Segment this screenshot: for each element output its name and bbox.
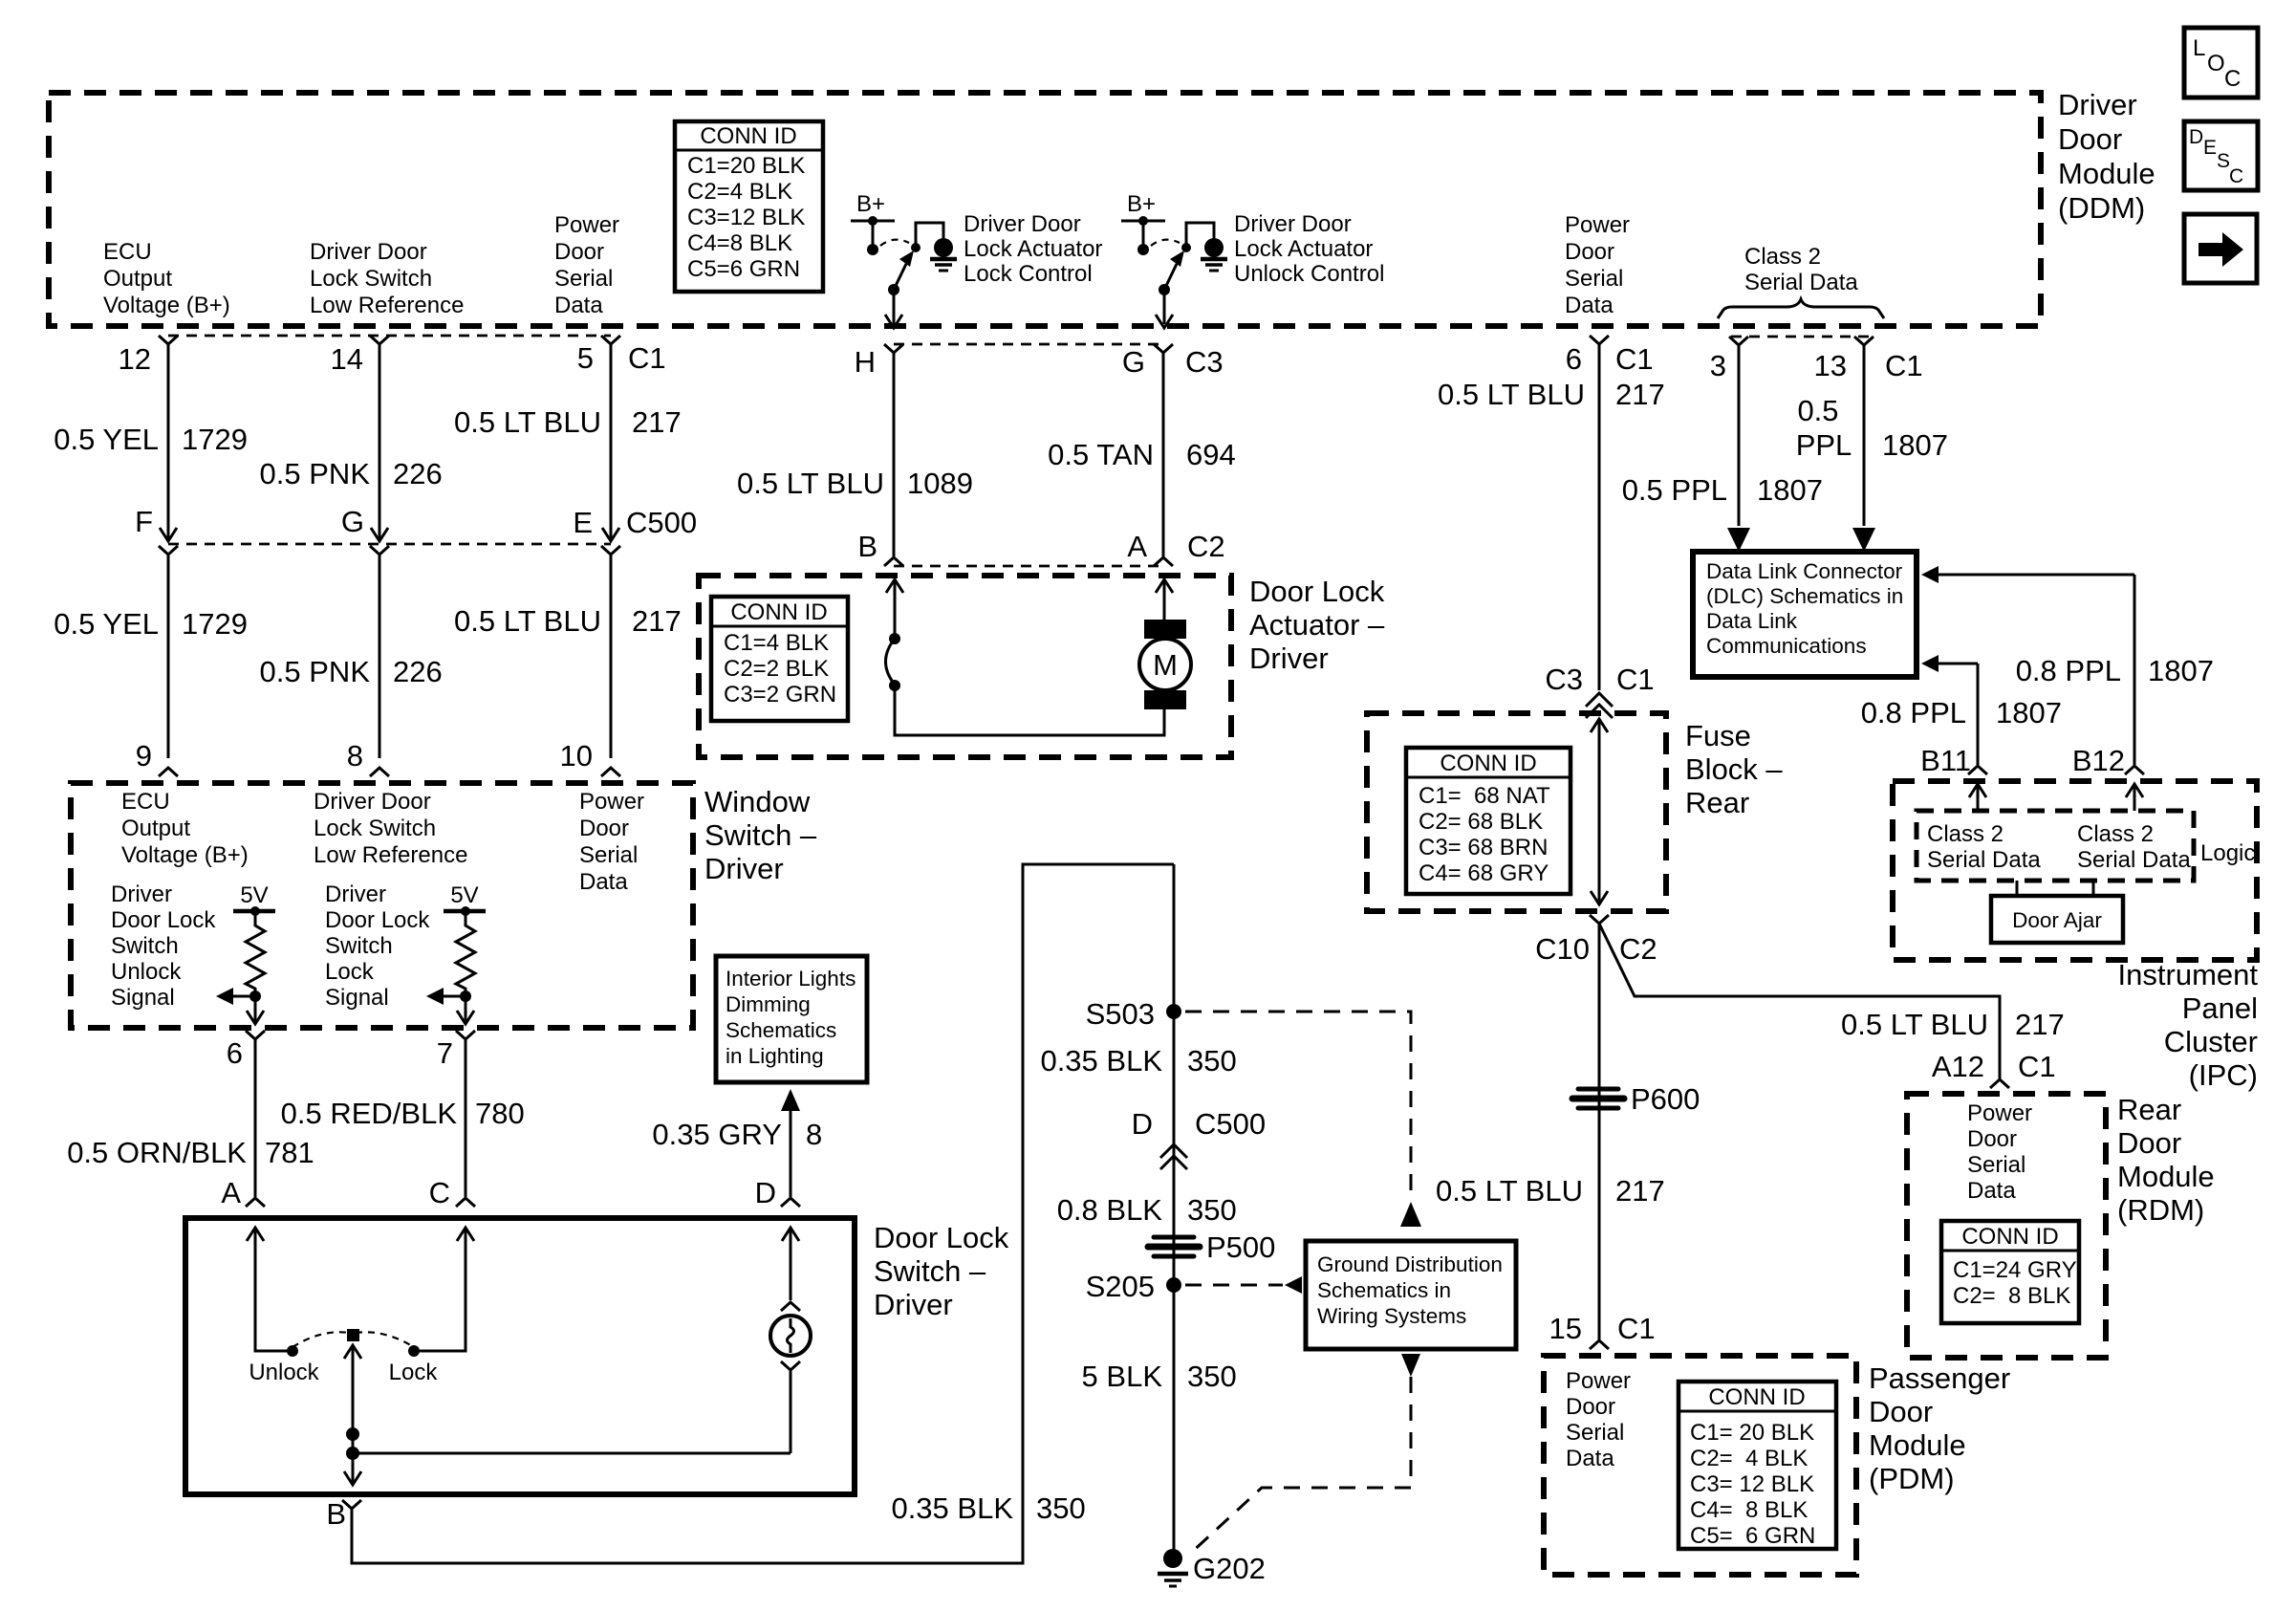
svg-text:C3=12 BLK: C3=12 BLK [687, 205, 805, 230]
wire 1729 segment F-9 [167, 555, 170, 758]
svg-text:Panel: Panel [2182, 991, 2258, 1025]
svg-text:C2= 8 BLK: C2= 8 BLK [1953, 1283, 2070, 1309]
svg-text:M: M [1153, 648, 1178, 682]
svg-text:Signal: Signal [111, 985, 175, 1011]
wire 217 segment E-10 [610, 555, 613, 758]
connector C10/C2 (fuse block bottom) [1590, 915, 1609, 924]
svg-text:0.5 LT BLU: 0.5 LT BLU [1841, 1008, 1988, 1041]
svg-text:C2: C2 [1619, 932, 1657, 966]
wire pin C entry [457, 1228, 474, 1241]
svg-text:Unlock Control: Unlock Control [1234, 261, 1384, 287]
wire 217 segment pin5-E [610, 344, 613, 540]
connector pin B12 (IPC) [2125, 766, 2144, 774]
svg-text:C2=2 BLK: C2=2 BLK [724, 656, 829, 682]
svg-text:Rear: Rear [2117, 1093, 2181, 1126]
switch S-unlock blade with arrowhead [1159, 284, 1170, 295]
svg-text:0.5 LT BLU: 0.5 LT BLU [454, 405, 601, 439]
wire 1807 segment pin13-DLC [1863, 345, 1866, 526]
svg-text:Power: Power [1565, 212, 1630, 238]
svg-text:0.5 LT BLU: 0.5 LT BLU [737, 467, 884, 500]
wire unlock signal to pin 6 [254, 996, 257, 1023]
svg-text:G: G [1122, 345, 1145, 379]
connector pin G (C500) [370, 546, 389, 555]
svg-text:E: E [573, 506, 593, 539]
connector pin 12 (DDM C1) [159, 336, 178, 344]
svg-text:Data Link Connector: Data Link Connector [1706, 559, 1903, 583]
svg-text:Serial: Serial [1565, 266, 1623, 292]
svg-text:Data: Data [554, 293, 603, 318]
wire 1089 segment H-B [893, 353, 896, 556]
svg-text:Switch: Switch [111, 933, 179, 959]
wire dashed S205 to ground distribution reference [1185, 1284, 1283, 1287]
svg-text:F: F [135, 505, 153, 538]
svg-text:Door: Door [2117, 1126, 2181, 1160]
svg-text:Communications: Communications [1706, 634, 1867, 658]
svg-text:Data: Data [1566, 1446, 1614, 1471]
svg-text:D: D [755, 1176, 776, 1209]
svg-text:P500: P500 [1206, 1230, 1275, 1264]
svg-text:Door Lock: Door Lock [874, 1221, 1009, 1254]
svg-text:3: 3 [1710, 349, 1726, 382]
connector table CONN ID (DDM) [675, 121, 823, 292]
svg-text:Door Lock: Door Lock [325, 907, 430, 933]
reference box Ground Distribution Schematics in Wiring Systems [1306, 1241, 1516, 1349]
svg-text:Power: Power [579, 789, 644, 815]
switch actuator contact [889, 633, 900, 644]
svg-text:Unlock: Unlock [111, 959, 182, 985]
wire actuator B to motor [895, 686, 1164, 735]
svg-text:A: A [1127, 530, 1147, 563]
svg-text:Driver: Driver [874, 1288, 953, 1321]
svg-text:1807: 1807 [1757, 473, 1823, 507]
svg-text:(RDM): (RDM) [2117, 1193, 2204, 1227]
svg-text:8: 8 [806, 1118, 822, 1151]
switch door-lock dashed throw arcs [292, 1332, 350, 1347]
svg-text:C1: C1 [2018, 1050, 2056, 1083]
svg-text:10: 10 [560, 739, 593, 773]
svg-text:Door: Door [2058, 122, 2122, 156]
svg-text:C5= 6 GRN: C5= 6 GRN [1690, 1523, 1815, 1549]
connector pin F (C500) [159, 546, 178, 555]
arrow lock signal to ECU (left) [440, 995, 466, 998]
svg-text:Door: Door [554, 239, 604, 265]
wire B12 into logic [2126, 784, 2143, 797]
node pole junction 2 [346, 1447, 359, 1460]
svg-text:Actuator –: Actuator – [1249, 608, 1385, 642]
svg-text:0.8 PPL: 0.8 PPL [1861, 696, 1966, 729]
reference box Interior Lights Dimming Schematics in Lighting [716, 956, 867, 1082]
wire pole to lamp branch [353, 1452, 791, 1455]
switch door-lock common pole [347, 1329, 359, 1341]
svg-text:PPL: PPL [1796, 428, 1852, 462]
svg-text:0.5: 0.5 [1797, 394, 1838, 427]
svg-text:Door: Door [1565, 239, 1614, 265]
svg-text:226: 226 [393, 457, 443, 490]
svg-text:Serial Data: Serial Data [1744, 270, 1858, 295]
contact Unlock [287, 1345, 298, 1357]
svg-text:Serial: Serial [1967, 1152, 2025, 1178]
svg-text:Module: Module [1869, 1428, 1966, 1462]
svg-text:P600: P600 [1631, 1082, 1700, 1116]
svg-text:G202: G202 [1193, 1552, 1266, 1585]
svg-text:C3= 12 BLK: C3= 12 BLK [1690, 1471, 1814, 1497]
connector pin A12 (IPC C1) [1990, 1079, 2009, 1088]
svg-text:C1= 68 NAT: C1= 68 NAT [1419, 783, 1550, 809]
grommet P600 [1572, 1089, 1624, 1108]
svg-text:Switch –: Switch – [704, 818, 817, 852]
svg-text:C3: C3 [1545, 663, 1583, 696]
svg-text:H: H [855, 345, 876, 379]
svg-text:Data: Data [1967, 1178, 2016, 1204]
lamp illumination (door lock switch) [781, 1302, 800, 1311]
wire dashed S503 to ground distribution reference [1185, 1012, 1411, 1198]
svg-text:A: A [221, 1176, 241, 1209]
svg-text:C3: C3 [1185, 345, 1224, 379]
svg-text:CONN ID: CONN ID [1708, 1384, 1805, 1410]
indicator box Door Ajar [1991, 896, 2123, 943]
module box Fuse Block - Rear, dashed [1367, 713, 1666, 911]
wire actuator pin A entry to motor [1156, 579, 1173, 593]
svg-text:Data: Data [1565, 293, 1614, 318]
svg-text:226: 226 [393, 655, 443, 688]
wire B11 into logic [1969, 784, 1986, 797]
svg-text:C2= 68 BLK: C2= 68 BLK [1419, 809, 1543, 835]
svg-text:C1: C1 [1885, 349, 1923, 382]
switch S-lock blade with arrowhead [888, 284, 899, 295]
icon DESC [2184, 121, 2258, 190]
svg-text:Voltage (B+): Voltage (B+) [121, 842, 249, 868]
svg-text:C500: C500 [1195, 1107, 1266, 1141]
connector pin 9 (window switch) [159, 768, 178, 776]
wire 1807 segment pin3-DLC [1738, 345, 1741, 526]
connector pin 7 (window switch bottom) [456, 1031, 475, 1039]
svg-text:0.35 GRY: 0.35 GRY [652, 1118, 782, 1151]
svg-text:Door Lock: Door Lock [1249, 575, 1385, 608]
module box Passenger Door Module (PDM), dashed [1544, 1356, 1856, 1575]
svg-text:Driver Door: Driver Door [314, 789, 431, 815]
svg-text:S205: S205 [1086, 1270, 1155, 1303]
svg-text:0.8 BLK: 0.8 BLK [1057, 1193, 1163, 1227]
svg-text:Lock: Lock [325, 959, 375, 985]
svg-text:C1: C1 [1617, 1312, 1656, 1345]
wire 217 segment 6-C3 [1598, 344, 1601, 690]
svg-text:694: 694 [1186, 438, 1236, 471]
svg-text:B+: B+ [1127, 191, 1156, 217]
svg-text:C3= 68 BRN: C3= 68 BRN [1419, 835, 1548, 860]
svg-text:Door: Door [1566, 1394, 1615, 1420]
svg-text:CONN ID: CONN ID [1440, 751, 1536, 776]
svg-text:C1: C1 [1616, 663, 1655, 696]
wire 217 segment C10-15 [1598, 924, 1601, 1339]
svg-text:Driver: Driver [325, 882, 386, 907]
svg-text:5 BLK: 5 BLK [1082, 1360, 1163, 1393]
reference box Data Link Connector (DLC) Schematics in Data Link Communications [1693, 552, 1917, 677]
svg-text:C4= 8 BLK: C4= 8 BLK [1690, 1497, 1808, 1523]
module box Door Lock Actuator - Driver, dashed [699, 576, 1231, 757]
wire ground bus vertical [1173, 864, 1176, 1558]
svg-text:(DDM): (DDM) [2058, 191, 2145, 225]
wire dashed ground distribution to G202 [1401, 1354, 1420, 1377]
node pole junction 1 [346, 1427, 359, 1441]
svg-text:Serial Data: Serial Data [2077, 847, 2191, 873]
node unlock signal junction [249, 991, 261, 1002]
svg-text:Door Ajar: Door Ajar [2012, 908, 2102, 932]
resistor R-lock (pull-up) [456, 911, 475, 991]
svg-text:C3=2 GRN: C3=2 GRN [724, 682, 836, 708]
module box Instrument Panel Cluster (IPC), dashed [1893, 781, 2257, 960]
svg-text:Fuse: Fuse [1685, 719, 1751, 752]
connector table CONN ID (actuator) [711, 597, 848, 721]
svg-text:Driver Door: Driver Door [1234, 211, 1352, 237]
connector pin 13 (DDM C1) [1854, 337, 1874, 345]
svg-text:Driver Door: Driver Door [964, 211, 1081, 237]
svg-text:Class 2: Class 2 [2077, 821, 2154, 847]
svg-text:7: 7 [437, 1036, 453, 1070]
connector line C1 under DDM (thin dashed) [168, 335, 611, 337]
svg-text:5V: 5V [450, 882, 478, 908]
svg-text:Instrument: Instrument [2118, 958, 2259, 991]
ground G202 [1163, 1549, 1182, 1568]
svg-text:14: 14 [331, 342, 363, 376]
connector pin B11 (IPC) [1968, 766, 1987, 774]
connector pin 14 (DDM C1) [370, 336, 389, 344]
svg-text:Rear: Rear [1685, 786, 1749, 819]
svg-text:0.5 RED/BLK: 0.5 RED/BLK [281, 1097, 458, 1130]
connector pin E (C500) [601, 546, 620, 555]
svg-text:Passenger: Passenger [1869, 1361, 2010, 1395]
svg-text:350: 350 [1187, 1360, 1237, 1393]
icon LOC [2184, 28, 2258, 98]
svg-text:B: B [326, 1497, 346, 1531]
connector table CONN ID (fuse block) [1406, 748, 1570, 894]
wire stubs logic to door ajar [2016, 881, 2019, 896]
module box Door Lock Switch - Driver, solid [185, 1218, 855, 1494]
svg-text:Serial: Serial [579, 842, 638, 868]
svg-text:Output: Output [103, 266, 172, 292]
svg-text:5V: 5V [240, 882, 268, 908]
wire B11 to DLC [1937, 663, 1978, 665]
svg-text:B11: B11 [1920, 744, 1971, 777]
svg-text:Ground Distribution: Ground Distribution [1317, 1252, 1503, 1276]
svg-text:ECU: ECU [103, 239, 152, 265]
svg-text:Door: Door [1869, 1395, 1933, 1428]
svg-text:0.5 TAN: 0.5 TAN [1048, 438, 1154, 471]
svg-text:6: 6 [227, 1036, 243, 1070]
svg-text:8: 8 [347, 739, 363, 773]
svg-text:0.35 BLK: 0.35 BLK [1040, 1044, 1162, 1078]
connector pin 6 (DDM C1) [1590, 336, 1609, 344]
svg-text:in Lighting: in Lighting [726, 1044, 824, 1068]
svg-text:781: 781 [265, 1136, 314, 1169]
svg-text:350: 350 [1036, 1491, 1086, 1525]
wire unlock-control output to pin G [1163, 290, 1166, 324]
wire 226 segment pin14-G [379, 344, 381, 540]
svg-text:350: 350 [1187, 1193, 1237, 1227]
connector pin 6 (window switch bottom) [246, 1031, 265, 1039]
svg-text:0.5 LT BLU: 0.5 LT BLU [1436, 1174, 1583, 1208]
svg-text:13: 13 [1814, 349, 1847, 382]
svg-text:Switch: Switch [325, 933, 393, 959]
connector line actuator (thin dashed) [894, 565, 1163, 568]
switch S-lock dashed throw arc [880, 240, 909, 246]
svg-text:0.5 PNK: 0.5 PNK [260, 655, 371, 688]
connector pin B (door lock switch bottom) [342, 1500, 361, 1509]
svg-text:1807: 1807 [2148, 654, 2214, 687]
node lock signal junction [460, 991, 471, 1002]
svg-text:G: G [341, 505, 364, 538]
svg-text:Door Lock: Door Lock [111, 907, 216, 933]
svg-text:CONN ID: CONN ID [1961, 1224, 2058, 1250]
svg-text:C2=4 BLK: C2=4 BLK [687, 179, 792, 205]
svg-text:350: 350 [1187, 1044, 1237, 1078]
module box Driver Door Module (DDM), dashed [49, 93, 2041, 326]
svg-text:O: O [2207, 51, 2225, 76]
svg-text:ECU: ECU [121, 789, 170, 815]
wire 780 segment 7-C [465, 1039, 467, 1197]
svg-text:C1: C1 [1615, 342, 1654, 376]
connector pin A (actuator C2) [1154, 557, 1173, 566]
connector pin 10 (window switch) [601, 768, 620, 776]
wire through fuse block [1591, 719, 1608, 732]
svg-text:12: 12 [119, 342, 151, 376]
svg-text:Serial Data: Serial Data [1927, 847, 2041, 873]
svg-text:(PDM): (PDM) [1869, 1462, 1955, 1495]
svg-text:Wiring Systems: Wiring Systems [1317, 1304, 1466, 1328]
svg-text:C1= 20 BLK: C1= 20 BLK [1690, 1420, 1814, 1446]
wire pin A entry [247, 1228, 264, 1241]
svg-text:Driver: Driver [704, 852, 784, 885]
svg-text:C1: C1 [628, 341, 666, 375]
svg-text:Switch –: Switch – [874, 1254, 986, 1288]
contact Lock [408, 1345, 420, 1357]
svg-text:C1=24 GRY: C1=24 GRY [1953, 1257, 2077, 1283]
svg-text:CONN ID: CONN ID [730, 599, 827, 625]
svg-text:Class 2: Class 2 [1927, 821, 2004, 847]
wire pin D entry to lamp [782, 1228, 799, 1241]
svg-text:(IPC): (IPC) [2189, 1058, 2258, 1092]
switch S-unlock pivot and coil-ground [1181, 243, 1191, 252]
svg-text:0.5 PPL: 0.5 PPL [1622, 473, 1727, 507]
svg-text:Lock Switch: Lock Switch [310, 266, 432, 292]
svg-text:(DLC) Schematics in: (DLC) Schematics in [1706, 584, 1903, 608]
svg-text:Block –: Block – [1685, 752, 1783, 786]
svg-text:Signal: Signal [325, 985, 389, 1011]
svg-text:0.5 PNK: 0.5 PNK [260, 457, 371, 490]
wire 217 branch to IPC [1599, 924, 2000, 1078]
svg-text:C5=6 GRN: C5=6 GRN [687, 256, 800, 282]
module box Rear Door Module (RDM), dashed [1907, 1094, 2106, 1358]
connector pin 5 (DDM C1) [601, 336, 620, 344]
svg-text:C4= 68 GRY: C4= 68 GRY [1419, 860, 1549, 886]
connector table CONN ID (PDM) [1679, 1382, 1836, 1549]
brace over Class 2 Serial Data pins [1718, 299, 1884, 318]
svg-text:Window: Window [704, 785, 811, 818]
svg-text:Serial: Serial [554, 266, 613, 292]
svg-text:Driver: Driver [2058, 88, 2137, 121]
svg-text:Unlock: Unlock [249, 1360, 319, 1385]
svg-text:Door: Door [579, 816, 629, 841]
svg-text:C1=20 BLK: C1=20 BLK [687, 153, 805, 179]
svg-text:Power: Power [1967, 1100, 2032, 1126]
connector pin G (DDM C3) [1154, 344, 1173, 353]
switch S-lock pivot and coil-ground [911, 243, 921, 252]
svg-text:Module: Module [2117, 1160, 2215, 1193]
svg-text:Interior Lights: Interior Lights [726, 967, 856, 991]
motor M door lock actuator [1144, 620, 1186, 639]
svg-text:Power: Power [554, 212, 619, 238]
svg-text:Driver Door: Driver Door [310, 239, 427, 265]
svg-text:Schematics: Schematics [726, 1018, 836, 1042]
svg-text:Data: Data [579, 869, 628, 895]
svg-text:CONN ID: CONN ID [700, 123, 796, 149]
connector C3/C1 (fuse block top) [1586, 693, 1613, 707]
svg-text:Door: Door [1967, 1126, 2017, 1152]
svg-text:L: L [2193, 35, 2205, 61]
wire lock signal to pin 7 [465, 996, 467, 1023]
svg-text:Low Reference: Low Reference [314, 842, 467, 868]
resistor R-unlock (pull-up) [246, 911, 265, 991]
arrow to interior lights box [781, 1089, 800, 1111]
svg-text:Lock Switch: Lock Switch [314, 816, 436, 841]
svg-text:1089: 1089 [907, 467, 973, 500]
svg-text:C: C [2224, 66, 2241, 92]
svg-text:Class 2: Class 2 [1744, 244, 1821, 270]
svg-text:C500: C500 [626, 506, 697, 539]
svg-text:0.35 BLK: 0.35 BLK [891, 1491, 1013, 1525]
svg-text:B12: B12 [2072, 744, 2125, 777]
connector pin B (actuator) [884, 557, 903, 566]
connector pin A (door lock switch) [246, 1198, 265, 1207]
connector pin 8 (window switch) [370, 768, 389, 776]
svg-text:C: C [2229, 165, 2243, 187]
svg-text:5: 5 [577, 341, 594, 375]
module box Window Switch - Driver, dashed [71, 783, 693, 1028]
wire actuator pin B entry [886, 579, 903, 593]
svg-text:Data Link: Data Link [1706, 609, 1798, 633]
svg-text:Driver: Driver [111, 882, 172, 907]
svg-text:Lock Actuator: Lock Actuator [1234, 236, 1373, 262]
arrow unlock signal to ECU (left) [229, 995, 255, 998]
svg-text:217: 217 [1615, 378, 1665, 411]
svg-text:B+: B+ [856, 191, 885, 217]
svg-text:C2: C2 [1187, 530, 1225, 563]
svg-text:Driver: Driver [1249, 642, 1329, 675]
svg-text:1807: 1807 [1996, 696, 2062, 729]
connector pin D (door lock switch) [781, 1198, 800, 1207]
svg-text:Module: Module [2058, 157, 2155, 190]
svg-text:S503: S503 [1086, 997, 1155, 1031]
svg-text:217: 217 [2015, 1008, 2065, 1041]
wire 694 segment G-A [1162, 353, 1165, 556]
svg-text:Lock Control: Lock Control [964, 261, 1093, 287]
svg-text:S: S [2217, 150, 2230, 172]
svg-text:Dimming: Dimming [726, 992, 811, 1016]
svg-text:1729: 1729 [182, 423, 248, 456]
wire B12 to DLC [1937, 574, 2134, 577]
svg-text:9: 9 [136, 739, 152, 773]
svg-text:0.5 YEL: 0.5 YEL [54, 607, 159, 641]
svg-text:E: E [2203, 137, 2217, 159]
connector pin H (DDM) [884, 344, 903, 353]
svg-text:0.5 YEL: 0.5 YEL [54, 423, 159, 456]
connector pin 3 (DDM C1) [1729, 337, 1748, 345]
svg-text:1807: 1807 [1882, 428, 1948, 462]
svg-text:6: 6 [1566, 342, 1582, 376]
svg-text:0.5 LT BLU: 0.5 LT BLU [1438, 378, 1585, 411]
svg-text:1729: 1729 [182, 607, 248, 641]
connector pin 15 (PDM C1) [1590, 1340, 1609, 1349]
switch S-unlock dashed throw arc [1151, 240, 1180, 246]
